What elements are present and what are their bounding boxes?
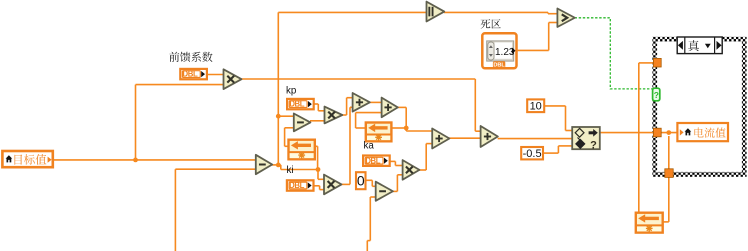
wire: feedback node out up to case left tunnel [639, 63, 654, 212]
constant: 10 [527, 99, 544, 112]
tunnel: case left lower [653, 128, 661, 137]
label: ki [287, 165, 294, 176]
node: junction on target wire [133, 158, 138, 163]
wire: add3 to add4 [449, 137, 481, 139]
case selector label TRUE [677, 37, 722, 54]
wire: bottom edge to subtract2 input [367, 197, 375, 251]
svg-text:DBL: DBL [289, 100, 304, 109]
terminal: kp DBL [287, 99, 314, 109]
label: kp [286, 86, 297, 97]
label: ka [364, 141, 375, 152]
wire: error bottom feedback to subtract [175, 169, 255, 251]
wire: target-value to error subtract [54, 159, 256, 161]
wire: error vertical to abs [278, 12, 426, 165]
add: add4 [481, 126, 498, 147]
wire: ki feedback out to kp subtract [285, 128, 294, 147]
multiply: ka [403, 160, 420, 180]
case structure frame [652, 37, 746, 177]
add: add2 [382, 98, 398, 118]
tunnel: case left upper [653, 58, 661, 67]
label: feedforward coefficient 前馈系数 [169, 52, 212, 62]
node: junction error/kp [276, 114, 281, 119]
wire: boolean greater to case selector [575, 18, 653, 89]
add: add1 kp+ki [353, 93, 370, 112]
tunnel: case selector ? [653, 88, 660, 101]
node: junction ka feedback tap [404, 126, 409, 131]
multiply: kp [325, 107, 343, 124]
terminal: ka DBL [363, 156, 390, 166]
abs node [427, 2, 445, 22]
feedback node: ka loop [366, 123, 392, 142]
wire: case bottom tunnel to feedback node [664, 136, 669, 222]
wire: ki DBL to ki multiply [314, 186, 325, 190]
svg-text:ka: ka [364, 141, 375, 152]
svg-text:ki: ki [287, 165, 294, 176]
wire: case tunnel to current indicator [661, 132, 678, 134]
svg-text:0: 0 [357, 173, 365, 189]
wire: add1 to add2 [370, 101, 382, 103]
wire: feedforward DBL to multiply [207, 74, 224, 76]
wire: feedforward multiply to final add (top route) [241, 79, 481, 131]
svg-text:DBL: DBL [493, 63, 505, 69]
wire: abs to greater [444, 12, 557, 13]
wire: deadband control to greater [518, 23, 558, 51]
subtract: subtract2 [376, 182, 393, 201]
wire: kp multiply to add1 top [342, 98, 353, 115]
wire: ki junction down to ki multiply [318, 170, 324, 180]
wire: ki multiply to add1 bottom [342, 107, 353, 184]
indicator: current value 电流值 [677, 123, 728, 141]
svg-text:10: 10 [530, 101, 542, 113]
subtract: error (target - feedback) [256, 155, 272, 174]
wire: junction up to feedforward multiply [136, 85, 224, 160]
control: target value 目标值 [2, 151, 52, 167]
wire: ka multiply to add3 bottom [419, 144, 432, 170]
wire: junction to ka feedback input [392, 127, 406, 129]
svg-text:DBL: DBL [289, 181, 304, 190]
wire: constant 10 to coerce upper [545, 106, 573, 131]
multiply: ki [324, 175, 342, 195]
wire: ka feedback out to add2 bottom [356, 113, 382, 128]
label: dead zone 死区 [481, 19, 501, 28]
svg-text:-0.5: -0.5 [523, 148, 542, 160]
svg-text:DBL: DBL [183, 70, 198, 79]
wire: subtract2 to ka multiply bottom [393, 175, 403, 192]
svg-text:kp: kp [286, 86, 297, 97]
wire: junction to kp subtract top input [278, 115, 294, 117]
wire: kp subtract out to kp multiply [310, 120, 325, 122]
wire: add4 to in-range-coerce [498, 138, 573, 140]
wire: kp DBL to kp multiply [314, 104, 325, 111]
wire: ka DBL to ka multiply [389, 161, 403, 165]
multiply: feedforward [224, 69, 242, 89]
subtract: kp error-prev [294, 114, 311, 132]
wire: coerce output to case tunnel [600, 132, 654, 134]
svg-text:DBL: DBL [365, 156, 380, 165]
greater-than node [557, 9, 574, 28]
terminal: ki DBL [287, 180, 314, 190]
node: junction at indicator [666, 130, 671, 135]
tunnel: case bottom [665, 169, 673, 178]
wire: ki junction up to ki feedback input [315, 146, 318, 169]
svg-text:?: ? [654, 90, 659, 100]
wire: zero constant to subtract2 [366, 180, 376, 186]
add: add3 [432, 129, 449, 149]
control: dead zone numeric 1.23 [482, 33, 516, 68]
node: junction error output [276, 163, 281, 168]
wire: constant -0.5 to coerce lower [544, 146, 573, 153]
node: junction ki branch [316, 167, 321, 172]
svg-text:?: ? [590, 139, 597, 151]
wire: error subtract output [272, 165, 318, 170]
feedback node: ki loop [289, 140, 315, 160]
terminal: feedforward DBL [180, 69, 207, 79]
constant: -0.5 [521, 147, 543, 160]
feedback node: case output loop [636, 213, 663, 233]
constant: 0 [356, 172, 366, 189]
wire: add2 out down to add3 top [398, 107, 433, 131]
function: in-range-and-coerce [572, 127, 600, 151]
